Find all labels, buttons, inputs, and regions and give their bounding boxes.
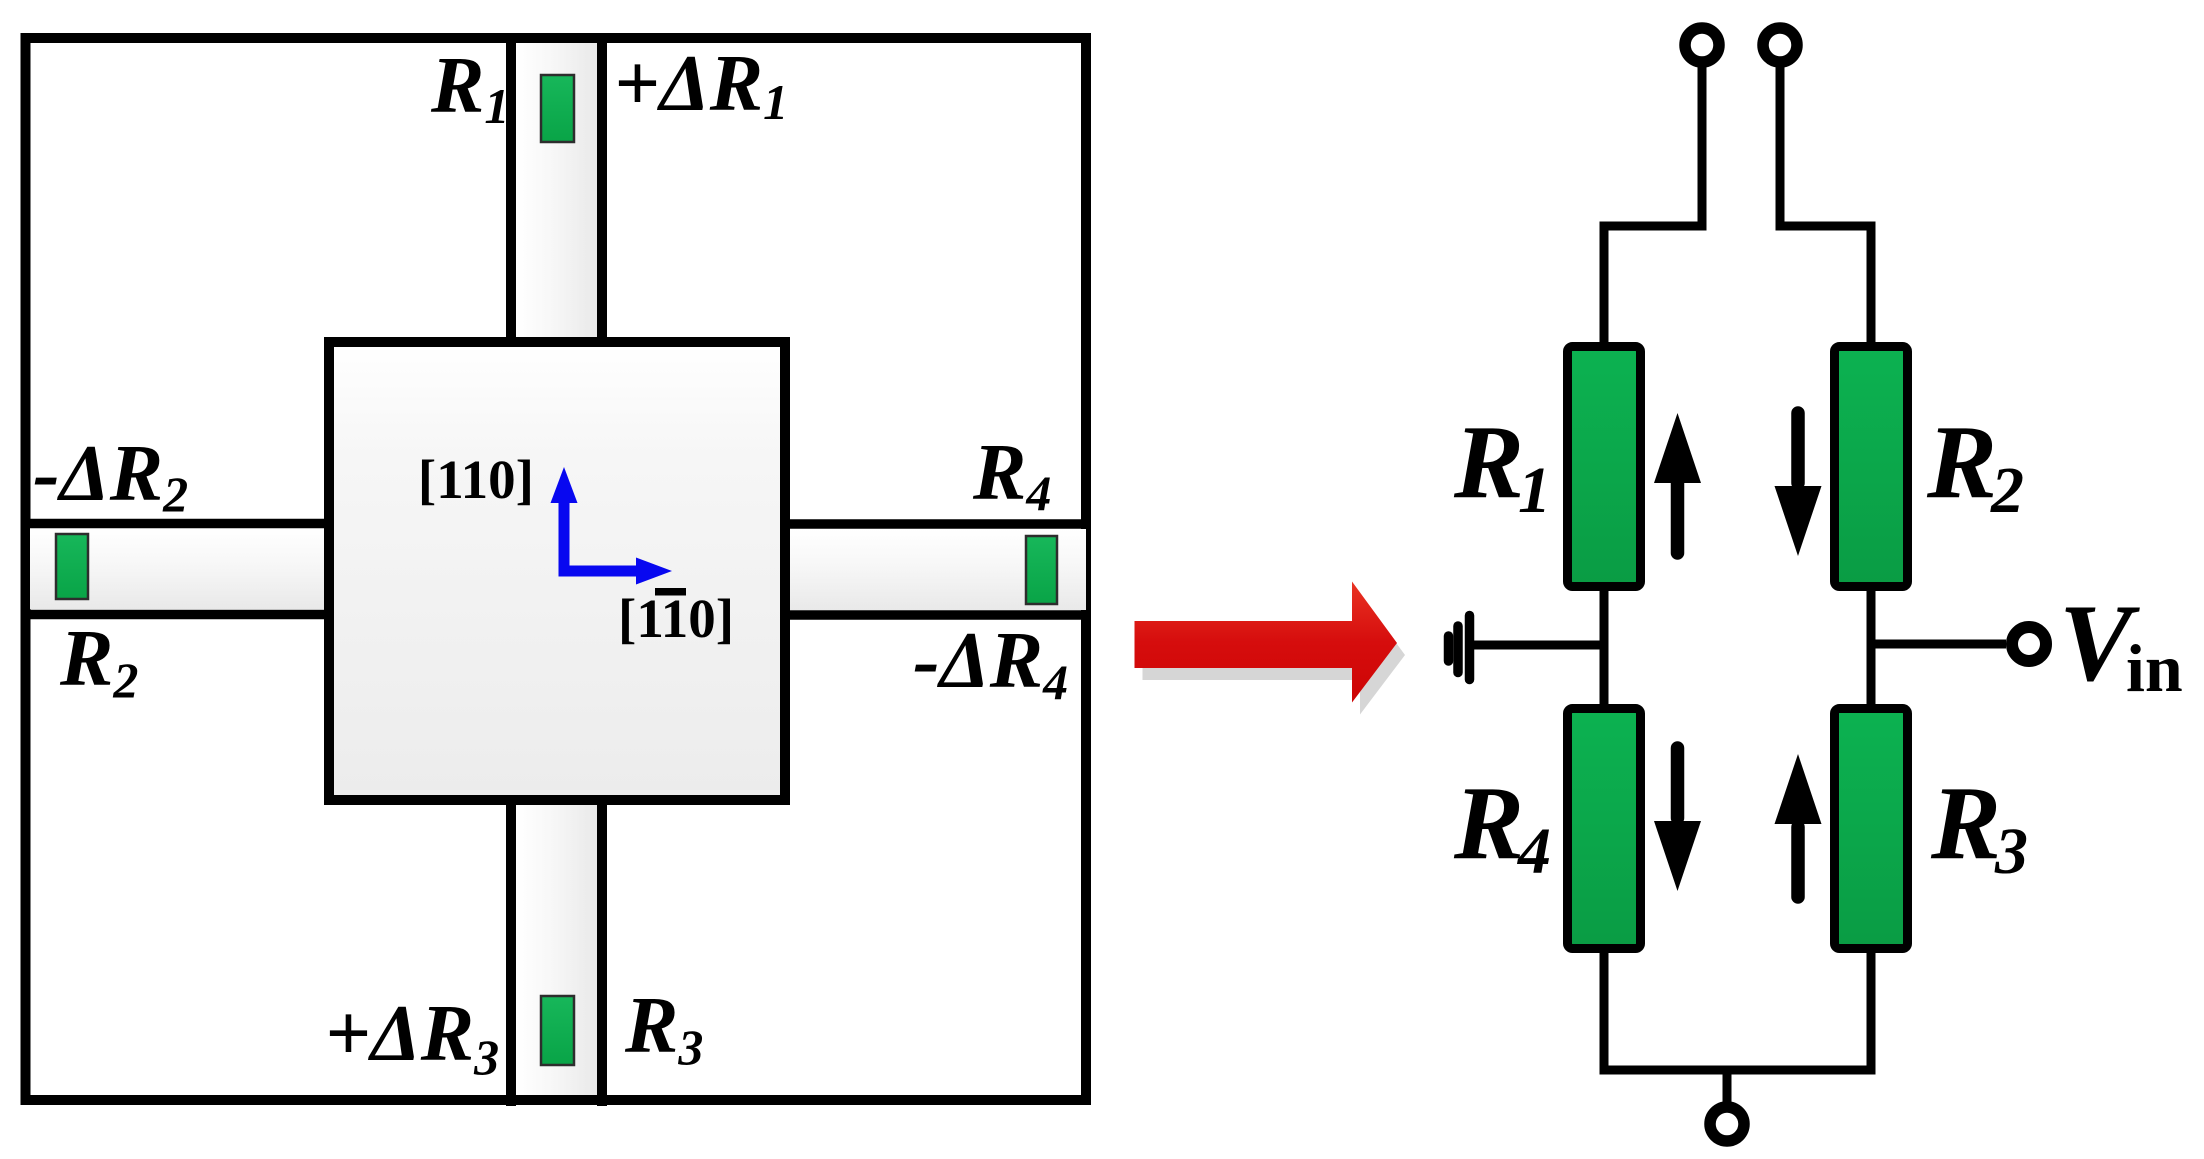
- svg-text:in: in: [2126, 630, 2183, 706]
- svg-text:[110]: [110]: [618, 588, 734, 649]
- svg-text:+ΔR1: +ΔR1: [614, 40, 788, 130]
- svg-text:+ΔR3: +ΔR3: [325, 990, 499, 1085]
- svg-text:[110]: [110]: [418, 449, 534, 510]
